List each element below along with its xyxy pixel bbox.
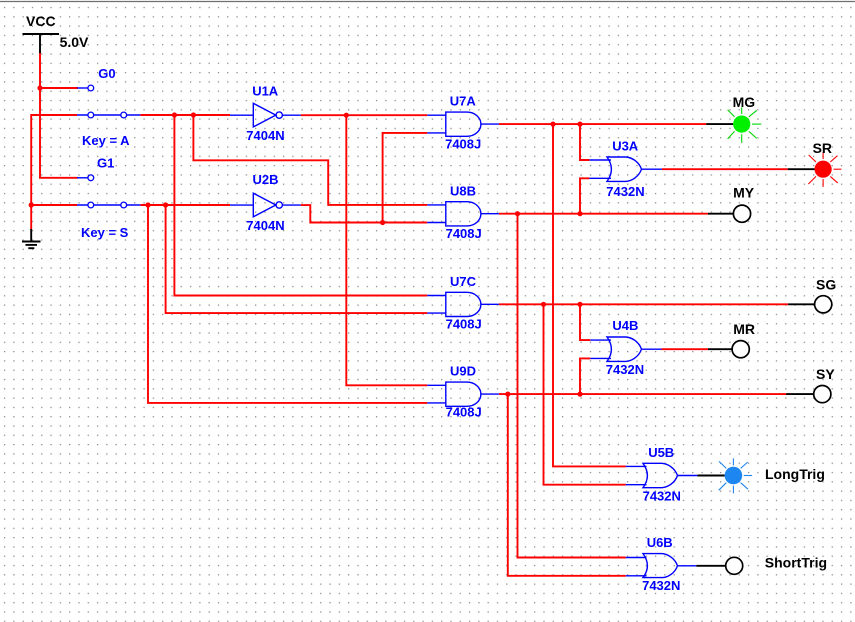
svg-text:U5B: U5B [648,445,674,460]
svg-text:U6B: U6B [647,535,673,550]
svg-text:U1A: U1A [252,84,279,99]
svg-text:VCC: VCC [26,13,56,29]
svg-text:Key = S: Key = S [81,225,129,240]
svg-text:U9D: U9D [450,364,476,379]
svg-text:U3A: U3A [612,139,639,154]
svg-text:7432N: 7432N [606,184,644,199]
svg-text:MG: MG [733,94,756,110]
svg-text:7432N: 7432N [606,362,644,377]
svg-text:7404N: 7404N [246,218,284,233]
svg-text:U8B: U8B [450,184,476,199]
svg-text:7408J: 7408J [446,317,482,332]
svg-text:ShortTrig: ShortTrig [765,555,827,571]
svg-text:SY: SY [816,366,835,382]
svg-text:U4B: U4B [612,318,638,333]
svg-text:U7C: U7C [450,274,477,289]
svg-text:SR: SR [813,140,832,156]
svg-text:5.0V: 5.0V [60,34,89,50]
svg-text:G0: G0 [98,66,115,81]
svg-text:MY: MY [733,184,755,200]
svg-text:SG: SG [816,276,836,292]
svg-text:7432N: 7432N [643,489,681,504]
svg-text:7404N: 7404N [246,128,284,143]
svg-text:LongTrig: LongTrig [765,466,825,482]
svg-text:7408J: 7408J [446,226,482,241]
svg-text:7408J: 7408J [445,137,481,152]
svg-text:7408J: 7408J [446,405,482,420]
svg-text:7432N: 7432N [642,578,680,593]
svg-text:U2B: U2B [253,172,279,187]
svg-text:U7A: U7A [450,94,477,109]
svg-text:G1: G1 [97,156,114,171]
svg-text:MR: MR [733,321,755,337]
svg-text:Key = A: Key = A [82,133,130,148]
